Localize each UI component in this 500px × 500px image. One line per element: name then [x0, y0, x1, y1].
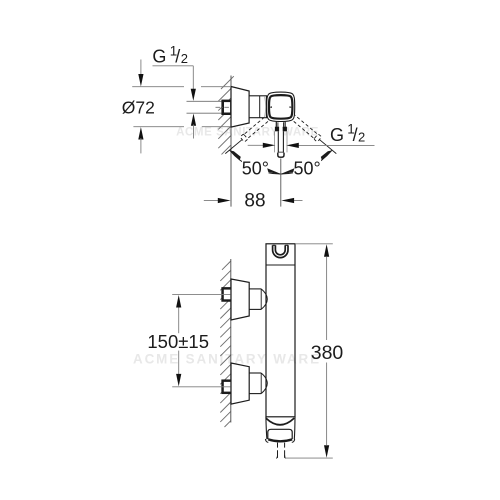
- side view: bottom union escutcheon: [231, 363, 249, 404]
- top view: wall hatching: [218, 76, 234, 154]
- top view: left radial extension line: [225, 140, 242, 154]
- side view: outlet feet: [265, 439, 268, 443]
- top view: angle arc left: [229, 150, 280, 174]
- top view: pipe axis centerline (dash-dot): [216, 106, 231, 108]
- top view: 88 dimension line: [204, 200, 219, 202]
- svg-text:50°: 50°: [242, 159, 269, 179]
- side view: 380 extension line bottom: [285, 457, 333, 459]
- svg-text:G: G: [152, 47, 166, 67]
- svg-text:2: 2: [358, 129, 365, 144]
- side view: outlet inner cup: [268, 429, 292, 439]
- top view: arc arrowhead outer-right: [321, 150, 332, 160]
- top view: right radial extension line: [320, 140, 337, 154]
- side view: outlet bottom lip: [268, 439, 292, 441]
- top view: dashed lever rotated -50deg (left swing position): [289, 113, 322, 142]
- side view: body cap line: [266, 264, 295, 266]
- side view: 150 extension line bottom: [172, 386, 230, 388]
- side view: top union escutcheon: [231, 279, 249, 320]
- top view: dashed lever rotated +50deg (right swing position): [240, 113, 273, 142]
- top view: handle tick left: [269, 106, 272, 108]
- svg-text:2: 2: [181, 51, 188, 66]
- top view: handle head inner thick contour: [269, 95, 292, 119]
- side view: outlet smile arc: [266, 418, 294, 425]
- svg-text:150±15: 150±15: [147, 331, 209, 352]
- side view: 150 extension line top: [172, 294, 230, 296]
- svg-text:G: G: [330, 125, 344, 145]
- side view: wall hatching: [220, 261, 231, 427]
- side view: 150 dimension line + arrows: [178, 306, 180, 333]
- top view: G1/2 lever dimension line right part: [298, 144, 375, 146]
- svg-text:88: 88: [244, 190, 265, 211]
- side view: outlet section right edge: [293, 417, 296, 440]
- svg-text:50°: 50°: [293, 159, 320, 179]
- top view: mixer body: [249, 96, 266, 118]
- top view: lever neck: [275, 121, 277, 127]
- top view: lever end cap: [278, 153, 284, 158]
- side view: outlet section left edge: [266, 417, 267, 440]
- side view: 380 extension line top: [295, 243, 333, 245]
- top view: G 1/2 left leader vertical + arrows: [192, 66, 194, 90]
- top view: angle arc right: [281, 150, 332, 174]
- top view: O72 dimension arrows: [140, 60, 142, 76]
- top view: centerline below lever: [280, 159, 282, 207]
- top view: supply pipe G1/2: [187, 100, 222, 102]
- top view: O72 extension line top: [132, 86, 184, 88]
- side view: bottom union nut: [222, 380, 231, 394]
- svg-text:ACME SANITARY WARE: ACME SANITARY WARE: [133, 351, 321, 366]
- top view: handle head outer contour: [267, 92, 295, 121]
- top view: O72 extension line bottom: [133, 126, 184, 128]
- side view: 380 dimension line + arrows: [326, 257, 328, 340]
- top view: G 1/2 label right: [330, 122, 365, 145]
- top view: body ring line: [259, 96, 261, 118]
- top view: wall line: [230, 76, 232, 207]
- top view: lever collar blocks: [275, 127, 279, 132]
- side view: shower holder U: [273, 244, 276, 246]
- top view: escutcheon flange: [231, 87, 249, 128]
- side view: wall line: [230, 259, 232, 423]
- svg-text:Ø72: Ø72: [122, 97, 155, 117]
- top view: arc arrowhead inner-left: [267, 168, 281, 174]
- side view: top union nut: [222, 288, 231, 302]
- side view: body: [266, 244, 295, 417]
- top view: handle tick right: [290, 106, 293, 108]
- side view: bottom union cylinder: [249, 372, 261, 374]
- top view: body shade arc: [265, 96, 266, 117]
- top view: 50deg label left bg: [242, 160, 269, 177]
- top view: G 1/2 label left: [152, 44, 188, 67]
- top view: G 1/2 left leader horizontal: [153, 65, 194, 67]
- svg-text:ACME SANITARY WARE: ACME SANITARY WARE: [176, 127, 319, 139]
- side view: spout (mousseur): [277, 443, 279, 458]
- svg-text:/: /: [353, 125, 358, 145]
- top view: arc arrowhead outer-left: [230, 150, 241, 160]
- side view: top union cylinder: [249, 288, 261, 290]
- top view: lever silhouette faint lines: [274, 131, 276, 152]
- top view: pipe nut: [222, 100, 231, 114]
- top view: 50deg label right bg: [293, 160, 321, 177]
- svg-text:/: /: [175, 47, 180, 67]
- top view: arc arrowhead inner-right: [281, 168, 295, 174]
- top view: lever shaft: [277, 131, 279, 153]
- top view: G1/2 lever dimension line left part: [248, 144, 264, 146]
